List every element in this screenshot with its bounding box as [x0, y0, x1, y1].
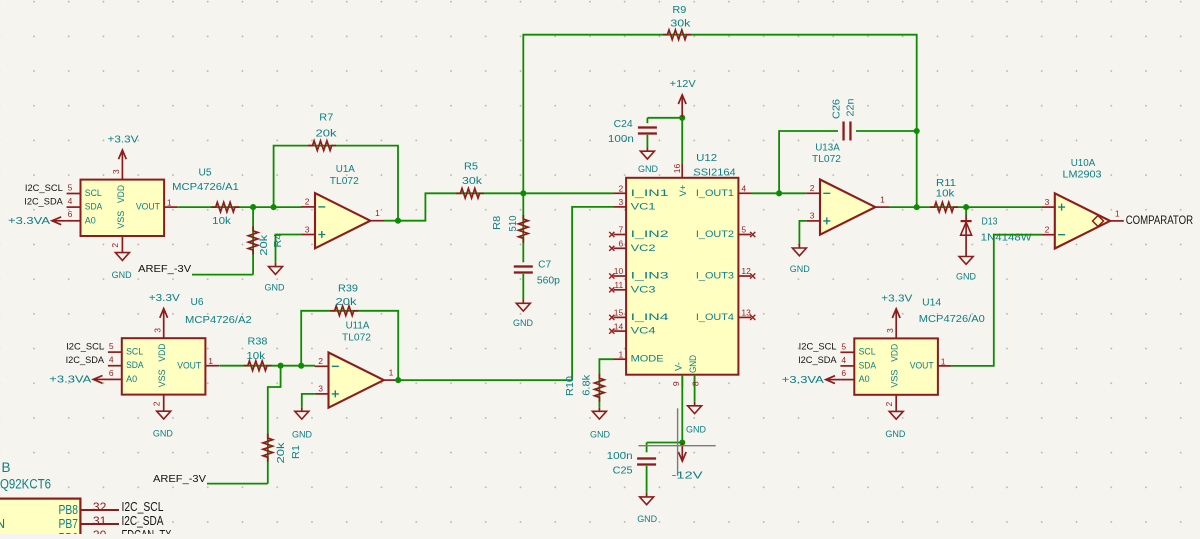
svg-text:I2C_SCL: I2C_SCL: [25, 183, 63, 193]
svg-text:B: B: [2, 460, 11, 475]
svg-text:2: 2: [318, 356, 323, 366]
svg-text:VSS: VSS: [157, 369, 167, 387]
svg-text:I_OUT2: I_OUT2: [696, 229, 734, 239]
svg-text:V+: V+: [678, 184, 689, 196]
svg-text:VOUT: VOUT: [177, 360, 201, 370]
svg-text:GND: GND: [956, 271, 976, 282]
svg-text:A0: A0: [859, 374, 870, 384]
svg-text:C24: C24: [614, 119, 634, 130]
svg-text:5: 5: [68, 183, 73, 193]
svg-text:COMPARATOR: COMPARATOR: [1126, 215, 1193, 227]
svg-text:I_IN1: I_IN1: [631, 188, 669, 198]
svg-text:GND: GND: [790, 264, 810, 275]
svg-text:U1A: U1A: [336, 164, 356, 175]
svg-text:4: 4: [841, 355, 846, 365]
svg-text:MCP4726/A0: MCP4726/A0: [919, 314, 986, 325]
svg-text:3: 3: [305, 224, 310, 234]
svg-text:31: 31: [93, 514, 107, 528]
svg-text:GND: GND: [688, 355, 698, 373]
svg-text:MCP4726/A1: MCP4726/A1: [172, 182, 239, 193]
svg-text:SDA: SDA: [126, 360, 144, 370]
svg-text:GND: GND: [112, 270, 132, 281]
svg-text:22n: 22n: [845, 99, 856, 117]
svg-text:6: 6: [109, 368, 114, 378]
svg-text:10k: 10k: [212, 216, 231, 227]
svg-text:I2C_SDA: I2C_SDA: [798, 355, 837, 365]
svg-text:11: 11: [614, 280, 623, 290]
svg-text:R5: R5: [464, 161, 479, 172]
svg-text:GND: GND: [637, 514, 657, 525]
svg-text:I2C_SCL: I2C_SCL: [66, 341, 104, 351]
svg-text:4: 4: [68, 196, 73, 206]
svg-text:15: 15: [614, 308, 624, 318]
svg-text:3: 3: [810, 211, 815, 221]
svg-text:MCP4726/A2: MCP4726/A2: [185, 315, 252, 326]
svg-text:510: 510: [508, 215, 519, 232]
svg-text:3: 3: [885, 328, 895, 333]
svg-text:1: 1: [389, 368, 394, 378]
svg-text:GND: GND: [292, 429, 312, 440]
svg-text:10: 10: [614, 266, 624, 276]
svg-text:I2C_SCL: I2C_SCL: [122, 500, 164, 514]
svg-text:30k: 30k: [462, 176, 482, 187]
svg-text:U14: U14: [922, 298, 942, 309]
svg-text:GND: GND: [265, 283, 285, 294]
svg-text:1: 1: [1115, 208, 1120, 218]
svg-text:U12: U12: [696, 153, 717, 164]
svg-text:14: 14: [614, 321, 624, 331]
svg-text:PB7: PB7: [59, 517, 79, 531]
svg-text:5: 5: [841, 341, 846, 351]
svg-text:SCL: SCL: [126, 347, 143, 357]
svg-text:R9: R9: [672, 5, 686, 16]
svg-text:6: 6: [841, 368, 846, 378]
svg-text:1: 1: [618, 349, 623, 359]
svg-text:VC2: VC2: [631, 243, 656, 253]
svg-text:R7: R7: [319, 113, 333, 124]
svg-text:D13: D13: [982, 216, 998, 227]
svg-text:N: N: [0, 517, 5, 531]
svg-text:R39: R39: [338, 283, 358, 294]
svg-text:C25: C25: [613, 466, 634, 477]
svg-text:30: 30: [93, 528, 107, 534]
svg-text:FDCAN_TX: FDCAN_TX: [122, 528, 172, 534]
svg-text:3: 3: [153, 328, 163, 333]
svg-text:6: 6: [68, 209, 73, 219]
svg-text:SCL: SCL: [859, 347, 876, 357]
svg-text:1: 1: [880, 195, 885, 205]
svg-text:R1: R1: [291, 445, 302, 459]
svg-text:VSS: VSS: [116, 211, 126, 229]
svg-text:SDA: SDA: [859, 360, 877, 370]
svg-text:560p: 560p: [537, 275, 561, 286]
svg-text:AREF_-3V: AREF_-3V: [153, 474, 207, 485]
svg-text:SCL: SCL: [85, 188, 102, 198]
svg-text:2: 2: [810, 183, 815, 193]
svg-text:+3.3VA: +3.3VA: [49, 375, 92, 386]
svg-text:-12V: -12V: [672, 470, 704, 481]
svg-text:Q92KCT6: Q92KCT6: [0, 477, 51, 492]
svg-text:I_OUT3: I_OUT3: [696, 271, 734, 281]
svg-text:+3.3V: +3.3V: [108, 135, 140, 146]
svg-text:20k: 20k: [336, 297, 357, 308]
svg-text:1: 1: [375, 208, 380, 218]
svg-text:GND: GND: [513, 318, 533, 329]
svg-text:+3.3VA: +3.3VA: [8, 216, 51, 227]
svg-text:U6: U6: [191, 297, 205, 308]
svg-text:VDD: VDD: [116, 185, 126, 203]
svg-text:3: 3: [111, 169, 121, 174]
svg-text:7: 7: [618, 225, 623, 235]
svg-text:R11: R11: [936, 178, 956, 189]
svg-text:I2C_SDA: I2C_SDA: [122, 514, 164, 528]
svg-text:32: 32: [93, 500, 107, 514]
svg-text:TL072: TL072: [812, 154, 841, 165]
svg-text:R38: R38: [248, 337, 269, 348]
svg-text:A0: A0: [85, 215, 96, 225]
svg-text:20k: 20k: [276, 442, 287, 463]
svg-text:1: 1: [941, 356, 946, 366]
svg-text:1: 1: [167, 198, 172, 208]
svg-text:5: 5: [741, 225, 746, 235]
svg-text:C7: C7: [538, 260, 551, 271]
svg-text:I2C_SCL: I2C_SCL: [799, 342, 837, 352]
svg-text:+3.3VA: +3.3VA: [782, 375, 825, 386]
svg-text:I2C_SDA: I2C_SDA: [66, 355, 105, 365]
svg-text:GND: GND: [153, 429, 173, 440]
svg-text:A0: A0: [126, 374, 137, 384]
svg-text:V-: V-: [674, 362, 685, 371]
svg-text:2: 2: [110, 243, 120, 248]
svg-text:U11A: U11A: [346, 321, 370, 332]
svg-text:1: 1: [208, 356, 213, 366]
svg-text:VOUT: VOUT: [910, 361, 934, 371]
svg-text:2: 2: [305, 197, 310, 207]
svg-text:VDD: VDD: [890, 343, 900, 361]
svg-text:10k: 10k: [936, 189, 955, 200]
svg-text:2: 2: [1045, 225, 1050, 235]
svg-text:100n: 100n: [608, 134, 634, 145]
svg-text:VC1: VC1: [631, 201, 656, 211]
svg-text:+3.3V: +3.3V: [149, 293, 181, 304]
svg-text:2: 2: [618, 184, 623, 194]
svg-text:AREF_-3V: AREF_-3V: [138, 264, 192, 275]
svg-text:VOUT: VOUT: [136, 202, 160, 212]
svg-text:6.8k: 6.8k: [582, 375, 593, 396]
svg-text:VSS: VSS: [890, 370, 900, 388]
svg-text:SDA: SDA: [85, 202, 103, 212]
svg-text:+12V: +12V: [670, 79, 697, 90]
svg-text:2: 2: [884, 401, 894, 406]
svg-text:GND: GND: [590, 430, 610, 441]
svg-text:GND: GND: [885, 429, 905, 440]
svg-text:10k: 10k: [246, 351, 265, 362]
svg-text:GND: GND: [686, 424, 706, 435]
svg-text:5: 5: [109, 341, 114, 351]
svg-text:R8: R8: [492, 215, 503, 230]
svg-text:2: 2: [151, 401, 161, 406]
svg-text:VC3: VC3: [631, 284, 656, 294]
svg-text:SSI2164: SSI2164: [693, 167, 736, 178]
svg-text:I_IN3: I_IN3: [631, 271, 669, 281]
svg-text:8: 8: [691, 381, 701, 386]
svg-text:30k: 30k: [670, 19, 690, 30]
svg-text:U10A: U10A: [1071, 158, 1096, 169]
svg-text:16: 16: [672, 164, 682, 174]
svg-text:VC4: VC4: [631, 326, 656, 336]
svg-text:20k: 20k: [259, 235, 270, 256]
svg-text:9: 9: [671, 381, 681, 386]
svg-text:I_IN2: I_IN2: [631, 229, 669, 239]
svg-text:U5: U5: [199, 167, 213, 178]
svg-text:VDD: VDD: [157, 343, 167, 361]
svg-text:20k: 20k: [316, 129, 337, 140]
svg-text:I_OUT1: I_OUT1: [696, 188, 734, 198]
svg-text:6: 6: [618, 239, 623, 249]
svg-text:13: 13: [741, 308, 751, 318]
svg-text:R10: R10: [565, 375, 576, 396]
svg-text:C26: C26: [831, 98, 842, 119]
svg-text:I_OUT4: I_OUT4: [696, 312, 734, 322]
svg-text:GND: GND: [638, 164, 658, 175]
svg-text:LM2903: LM2903: [1063, 170, 1103, 181]
svg-text:I2C_SDA: I2C_SDA: [24, 196, 63, 206]
svg-text:U13A: U13A: [815, 142, 840, 153]
svg-text:TL072: TL072: [342, 332, 371, 343]
svg-text:12: 12: [741, 266, 751, 276]
svg-text:MODE: MODE: [631, 354, 664, 364]
svg-text:3: 3: [318, 384, 323, 394]
svg-text:100n: 100n: [607, 451, 633, 462]
svg-text:3: 3: [1045, 197, 1050, 207]
svg-text:PB8: PB8: [59, 503, 79, 517]
svg-text:4: 4: [741, 184, 746, 194]
svg-text:4: 4: [109, 355, 114, 365]
svg-text:TL072: TL072: [330, 176, 359, 187]
svg-text:I_IN4: I_IN4: [631, 312, 669, 322]
svg-text:+3.3V: +3.3V: [881, 293, 913, 304]
svg-text:3: 3: [618, 197, 623, 207]
